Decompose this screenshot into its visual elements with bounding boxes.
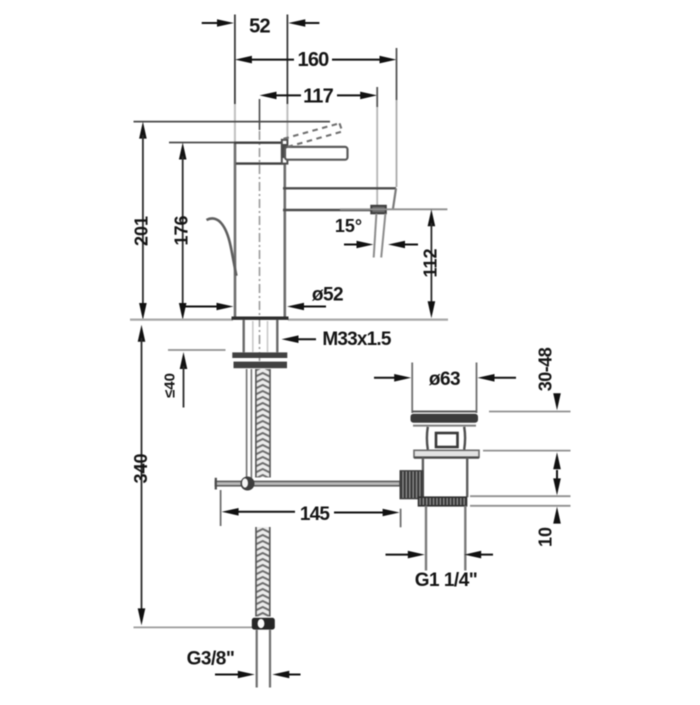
svg-text:G1 1/4": G1 1/4" (415, 570, 478, 591)
flexible hose lower section (256, 527, 270, 617)
label G1 1/4" arrows (386, 551, 494, 559)
svg-text:201: 201 (132, 216, 152, 246)
svg-text:340: 340 (131, 453, 151, 483)
svg-text:176: 176 (172, 215, 192, 245)
ball joint (241, 477, 255, 491)
svg-text:10: 10 (536, 527, 556, 547)
water stream lines 15 degrees (374, 214, 386, 258)
dimension <=40: arrow and text (162, 352, 188, 408)
dimension 112: top extension line (spout outlet level) (340, 208, 447, 210)
dimension 176: vertical line with arrows (179, 143, 187, 321)
drain lever knurled knob (400, 471, 423, 499)
label M33x1.5 with arrow (282, 329, 392, 350)
dimension 340: bottom extension line (134, 626, 253, 628)
dimension 160: extension line right (396, 48, 398, 187)
svg-text:30-48: 30-48 (536, 347, 556, 391)
dimension 30-48: text and arrows (536, 347, 561, 469)
dimension 145: line, arrows, text (222, 504, 400, 525)
dimension 201: top extension line (134, 121, 331, 123)
drain thread band (419, 497, 467, 506)
dimension 145: extension lines (221, 490, 401, 527)
svg-text:ø63: ø63 (429, 369, 460, 390)
flexible hose upper section (256, 369, 270, 478)
dimension diameter 63: extension lines (412, 363, 476, 414)
vertical pop-up rod (247, 369, 252, 478)
dimension 52: extension line right (286, 15, 288, 142)
threaded shank M33 (244, 320, 278, 352)
lever handle solid (closed position) (285, 147, 348, 160)
drain neck with overflow window (427, 427, 465, 450)
G3/8 connector nut (252, 618, 275, 630)
svg-text:15°: 15° (335, 216, 362, 236)
label 15 degrees with arrows (335, 216, 418, 248)
dimension 340: vertical line with arrows (138, 325, 146, 626)
faucet body outline (234, 143, 285, 318)
handle side-profile curve left of body (207, 218, 237, 275)
drain flange (411, 412, 479, 426)
faucet centerline (259, 99, 261, 371)
svg-text:≤40: ≤40 (162, 373, 179, 398)
lever handle dashed (open position) (284, 123, 343, 147)
svg-text:145: 145 (300, 504, 331, 525)
lever neck joint (282, 140, 288, 164)
dimension <=40: extension line (168, 349, 226, 351)
dimension diameter 63: arrows and text (374, 369, 516, 390)
dimension 117: extension line right (376, 87, 378, 206)
spout (283, 188, 396, 210)
dimension 52: extension line left (234, 15, 236, 142)
pop-up rod horizontal (216, 478, 401, 490)
drain body (423, 458, 467, 498)
dimension 112: vertical line with arrows (428, 209, 436, 318)
washer under counter (232, 352, 287, 358)
mounting nut (234, 362, 288, 369)
dimension 52: arrows and text (202, 15, 320, 37)
svg-text:112: 112 (421, 248, 441, 277)
svg-text:G3/8": G3/8" (187, 648, 235, 669)
right extension lines for drain dimensions (470, 412, 571, 506)
svg-text:M33x1.5: M33x1.5 (322, 329, 392, 350)
label diameter 52 with arrows (185, 285, 343, 311)
dimension 176: top extension line (169, 142, 236, 144)
dimension 10: arrows and text (536, 470, 561, 547)
svg-text:52: 52 (249, 15, 270, 37)
drain tailpipe (426, 506, 465, 571)
svg-text:117: 117 (303, 86, 334, 108)
aerator collar (371, 206, 386, 214)
svg-text:160: 160 (298, 49, 330, 71)
svg-text:ø52: ø52 (312, 285, 343, 306)
dimension 117: line, arrows, text (260, 86, 378, 108)
label G3/8" arrows (215, 671, 301, 679)
mounting surface line (130, 318, 448, 319)
dimension 201: vertical line with arrows (139, 122, 147, 320)
connector tube bottom (257, 630, 270, 688)
drain lower flange (414, 450, 479, 457)
dimension 160: line, arrows, text (235, 49, 397, 71)
